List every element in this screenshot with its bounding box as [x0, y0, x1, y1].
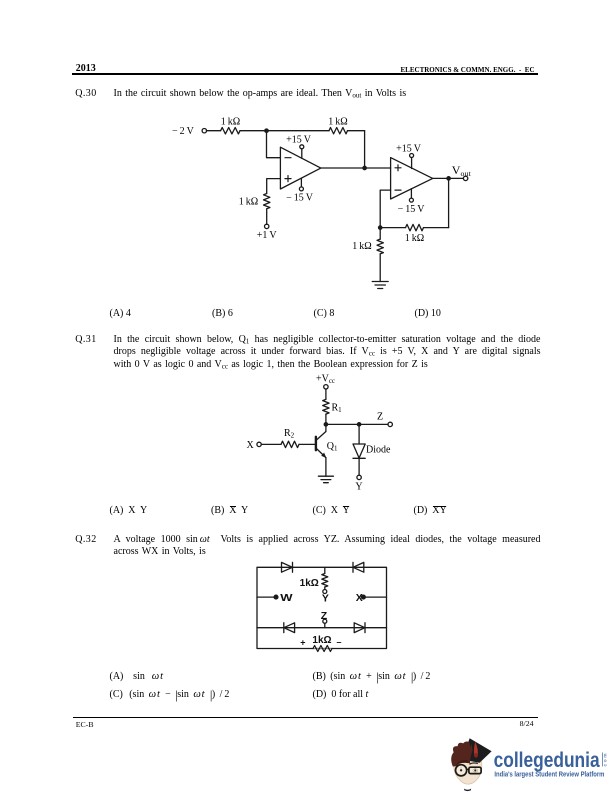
- svg-text:collegedunia: collegedunia: [494, 748, 601, 772]
- svg-text:com: com: [604, 754, 609, 767]
- svg-text:India's largest Student Review: India's largest Student Review Platform: [494, 771, 604, 778]
